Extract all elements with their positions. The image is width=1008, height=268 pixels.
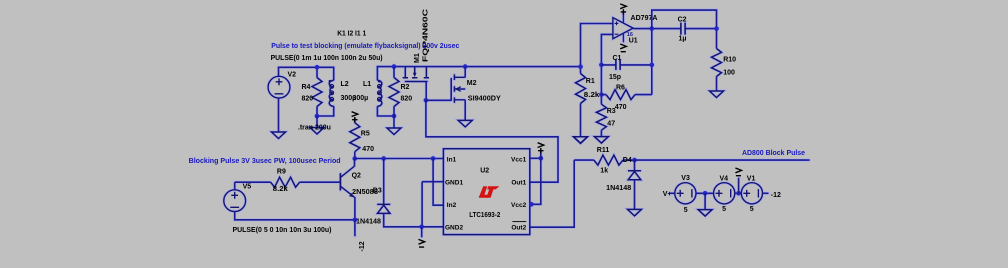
- wire R5 top stub: [354, 118, 356, 123]
- transistor M1: [403, 67, 430, 82]
- node junction C2 right: [714, 26, 719, 31]
- node junction D3 top: [381, 156, 386, 161]
- svg-text:C1: C1: [613, 55, 622, 62]
- wire secondary top rail: [377, 67, 580, 81]
- wire M1 gate to node: [425, 82, 427, 101]
- svg-text:AD800 Block Pulse: AD800 Block Pulse: [742, 150, 805, 157]
- svg-text:GND2: GND2: [445, 224, 463, 231]
- net flag -V at V4-V1: [735, 168, 741, 176]
- logo Linear Technology (red LT): [479, 186, 500, 197]
- capacitor C1: [616, 60, 620, 70]
- svg-text:V4: V4: [720, 175, 729, 182]
- svg-text:R6: R6: [616, 85, 625, 92]
- wire +V flag stub U2: [540, 152, 542, 158]
- node junction GND wire: [419, 225, 424, 230]
- wire V2 to ground: [278, 98, 280, 133]
- ground under R1: [574, 137, 588, 144]
- wire V1 to -12: [763, 192, 769, 194]
- wire Vcc1 stub: [530, 157, 541, 159]
- node junction R6 left: [599, 92, 604, 97]
- svg-text:SI9400DY: SI9400DY: [468, 96, 501, 103]
- svg-text:AD797A: AD797A: [631, 15, 658, 22]
- wire -V flag stub supply: [738, 178, 740, 194]
- capacitor C2: [681, 23, 685, 35]
- wire V5 top to R9: [235, 182, 271, 190]
- resistor R10: [712, 49, 722, 77]
- svg-text:R2: R2: [401, 84, 410, 91]
- wire bottom rail R4-L2: [317, 106, 334, 116]
- resistor R4: [312, 78, 322, 107]
- resistor R2: [389, 78, 399, 107]
- wire gate node to M2 gate: [426, 99, 451, 101]
- node junction rail-R1: [578, 64, 583, 69]
- wire AD800 block pulse net: [635, 159, 810, 161]
- wire stem supply ground: [704, 193, 706, 209]
- wire L1-R2 bottom rail: [377, 106, 394, 116]
- svg-text:16: 16: [627, 32, 633, 38]
- svg-text:Out1: Out1: [511, 179, 526, 186]
- wire R2 leads: [393, 67, 395, 116]
- svg-text:-12: -12: [771, 192, 781, 199]
- ground under R4-L2: [310, 128, 324, 135]
- svg-text:M2: M2: [467, 80, 477, 87]
- svg-text:1k: 1k: [600, 168, 608, 175]
- svg-text:In1: In1: [447, 157, 457, 164]
- node junction rail-R4 top: [315, 65, 320, 70]
- diode D4: [628, 171, 641, 180]
- svg-text:R5: R5: [361, 131, 370, 138]
- voltage source V5: [224, 190, 246, 212]
- wire C1 leads: [601, 64, 651, 66]
- node junction Vcc1: [539, 156, 544, 161]
- node junction R4-L2 bottom: [315, 114, 320, 119]
- svg-text:R4: R4: [302, 84, 311, 91]
- node junction C1 left: [599, 63, 604, 68]
- wire V2 top rail to L2: [279, 67, 334, 80]
- wire R1 to ground: [580, 104, 582, 137]
- wire Q2 collector: [354, 159, 356, 167]
- inductor L1: [377, 80, 381, 106]
- svg-text:L2: L2: [341, 81, 349, 88]
- wire +input to R1: [581, 24, 614, 74]
- wire GND1 branch: [422, 182, 443, 227]
- node junction C1 right: [650, 63, 655, 68]
- node junction -V supply: [736, 191, 741, 196]
- svg-text:Vcc2: Vcc2: [511, 202, 527, 209]
- wire to -12 flag: [354, 220, 356, 236]
- svg-text:47: 47: [607, 120, 615, 127]
- svg-text:U1: U1: [629, 37, 638, 44]
- svg-text:K1 I2 I1 1: K1 I2 I1 1: [337, 31, 366, 38]
- svg-text:Vcc1: Vcc1: [511, 157, 527, 164]
- svg-text:8.2k: 8.2k: [273, 186, 288, 193]
- net flag -V below GND wire: [419, 239, 425, 247]
- svg-text:Q2: Q2: [352, 172, 361, 179]
- svg-text:5: 5: [684, 207, 688, 214]
- net flag +V above U1: [620, 4, 626, 15]
- voltage source V2: [268, 76, 290, 98]
- svg-text:U2: U2: [480, 168, 489, 175]
- wire R10 to ground: [716, 77, 718, 92]
- voltage source V4: [714, 183, 735, 204]
- svg-text:1µ: 1µ: [679, 36, 687, 43]
- diode D3: [377, 204, 390, 213]
- IC U2 LTC1693-2 box: [443, 149, 529, 235]
- svg-text:820: 820: [302, 96, 314, 103]
- transistor Q2: [340, 166, 354, 197]
- svg-text:1N4148: 1N4148: [356, 219, 381, 226]
- svg-text:R3: R3: [607, 108, 616, 115]
- wire stem to ground R4L2: [316, 116, 318, 128]
- node junction M1/M2 gate: [424, 98, 429, 103]
- svg-text:.tran 200u: .tran 200u: [298, 124, 331, 131]
- wire output to C2: [633, 28, 716, 30]
- svg-text:R9: R9: [277, 169, 286, 176]
- svg-text:GND1: GND1: [445, 179, 463, 186]
- svg-text:FQP4N60C: FQP4N60C: [422, 9, 429, 62]
- wire M2 drain to ground: [464, 100, 466, 121]
- svg-text:D4: D4: [623, 157, 632, 164]
- ground under R3: [594, 137, 608, 144]
- ground under R1 (bar): [574, 137, 588, 144]
- wire -V flag stub: [421, 227, 423, 238]
- svg-text:Out2: Out2: [511, 224, 526, 231]
- svg-text:470: 470: [615, 104, 627, 111]
- wire D4 anode to ground: [634, 180, 636, 210]
- resistor R9: [271, 177, 300, 187]
- svg-text:470: 470: [362, 146, 374, 153]
- wire node to In1: [355, 158, 444, 160]
- svg-text:PULSE(0 1m 1u 100n 100n 2u 50u: PULSE(0 1m 1u 100n 100n 2u 50u): [271, 55, 383, 62]
- wire feedback vertical: [651, 29, 653, 95]
- wire R3 to ground: [600, 130, 602, 136]
- wire Vcc1 to Vcc2: [531, 158, 540, 204]
- svg-text:L1: L1: [363, 81, 371, 88]
- ground under D4: [628, 209, 642, 216]
- svg-text:5: 5: [750, 206, 754, 213]
- wire Q2 emitter: [354, 197, 356, 220]
- svg-text:2N5088: 2N5088: [352, 189, 378, 196]
- op-amp U1 AD797A: [613, 14, 633, 43]
- svg-text:820: 820: [401, 96, 413, 103]
- wire stem to ground L1R2: [393, 116, 395, 128]
- node junction supply ground: [703, 191, 708, 196]
- node junction R11-D4: [632, 158, 637, 163]
- svg-text:R1: R1: [586, 78, 595, 85]
- voltage source V3: [675, 183, 696, 204]
- wire R11 to D4 node: [623, 159, 635, 161]
- wire -input rail: [601, 34, 613, 104]
- resistor R1: [576, 74, 586, 104]
- svg-text:M1: M1: [414, 53, 421, 63]
- svg-text:V2: V2: [288, 72, 297, 79]
- svg-text:V1: V1: [747, 175, 756, 182]
- wire D3 anode to GND2: [384, 213, 444, 227]
- node junction rail-R2 top: [392, 64, 397, 69]
- transistor M2: [451, 74, 465, 102]
- resistor R3: [596, 104, 606, 130]
- svg-text:5: 5: [722, 206, 726, 213]
- wire gate node to U2 Out1: [426, 100, 558, 182]
- wire M2 source: [464, 67, 466, 78]
- wire branch to In2: [433, 159, 443, 206]
- net flag -V below U1: [620, 44, 626, 52]
- wire Out2 to R11: [530, 160, 594, 227]
- svg-text:R11: R11: [597, 147, 610, 154]
- wire to D3 cathode: [383, 159, 385, 205]
- svg-text:Blocking Pulse 3V 3usec PW, 10: Blocking Pulse 3V 3usec PW, 100usec Peri…: [189, 158, 341, 165]
- svg-text:-12: -12: [359, 241, 366, 251]
- node junction rail-M2 source: [463, 64, 468, 69]
- svg-text:Pulse to test blocking (emulat: Pulse to test blocking (emulate flybacks…: [271, 43, 459, 50]
- wire output top loop to R10: [652, 10, 717, 48]
- svg-text:1N4148: 1N4148: [606, 185, 631, 192]
- node junction R5-Q2-In1: [353, 156, 358, 161]
- wire R5 bottom: [354, 152, 356, 159]
- svg-text:R10: R10: [723, 56, 736, 63]
- voltage source V1: [741, 183, 762, 204]
- inductor L2: [329, 80, 333, 106]
- resistor R6: [606, 90, 635, 100]
- node junction L1-R2 bottom: [392, 114, 397, 119]
- svg-text:300µ: 300µ: [353, 95, 369, 102]
- wire V3 to V4: [696, 192, 714, 194]
- wire to D4 cathode: [634, 160, 636, 171]
- ground under M2: [458, 120, 472, 127]
- svg-text:V5: V5: [243, 183, 252, 190]
- wire R4 leads: [316, 67, 318, 116]
- node junction emitter/-12: [353, 218, 358, 223]
- resistor R11: [594, 155, 623, 165]
- svg-text:C2: C2: [678, 16, 687, 23]
- ground under R10: [710, 91, 724, 98]
- svg-text:PULSE(0 5 0 10n 10n 3u 100u): PULSE(0 5 0 10n 10n 3u 100u): [233, 227, 332, 234]
- svg-text:15p: 15p: [609, 74, 621, 81]
- wire V4 to V1: [735, 192, 742, 194]
- svg-text:In2: In2: [447, 202, 457, 209]
- wire R9 to Q2 base: [300, 181, 341, 183]
- node junction Vcc2: [529, 202, 534, 207]
- node junction U1 output: [650, 26, 655, 31]
- svg-text:V3: V3: [681, 175, 690, 182]
- ground between V3 V4: [698, 210, 712, 217]
- svg-text:8.2k: 8.2k: [584, 92, 600, 99]
- wire R6 leads: [601, 94, 651, 96]
- ground under L1-R2: [387, 128, 401, 135]
- svg-text:LTC1693-2: LTC1693-2: [469, 212, 500, 219]
- net flag +V above Vcc1: [538, 143, 544, 154]
- node junction In2 branch: [431, 156, 436, 161]
- ground under V2: [272, 132, 286, 139]
- svg-text:V+: V+: [663, 191, 672, 198]
- net flag +V above R5: [352, 112, 358, 123]
- wire V+ to V3: [670, 192, 675, 194]
- svg-text:100: 100: [723, 70, 735, 77]
- wire V5 bottom rail: [235, 211, 355, 220]
- resistor R5: [350, 123, 360, 152]
